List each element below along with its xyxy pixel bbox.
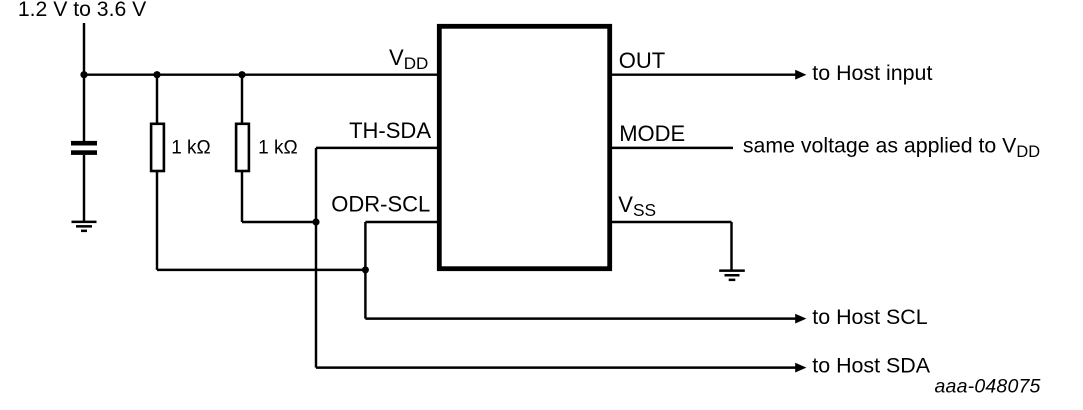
wire VSS pin [610,221,732,223]
junction node: R2 top on VDD bus [238,71,245,78]
svg-text:to Host SCL: to Host SCL [812,305,927,329]
wire R2 top [241,75,243,125]
ground symbol (right, VSS) [719,269,745,281]
arrowhead to Host SCL [795,314,806,324]
svg-text:OUT: OUT [619,48,665,73]
svg-text:1 kΩ: 1 kΩ [171,138,211,159]
wire MODE [610,147,733,149]
wire ODR-SCL pin [365,221,439,223]
wire R1 top [156,75,158,125]
wire VDD bus horizontal to IC pin [84,73,439,75]
resistor R1 [151,124,164,171]
svg-text:MODE: MODE [619,121,685,146]
svg-text:VDD: VDD [389,45,428,73]
IC U1 body [439,26,609,268]
svg-text:same voltage as applied to VDD: same voltage as applied to VDD [743,134,1040,161]
wire ODR-SCL vertical [364,222,366,319]
wire TH-SDA pin [316,147,439,149]
junction node: supply / capacitor / bus [80,71,87,78]
wire SCL to host [365,317,797,319]
wire R1 bottom [156,171,158,270]
wire OUT to host [610,73,797,75]
resistor R2 [236,124,249,171]
wire SDA to host [316,366,797,368]
arrowhead to Host input [795,70,806,80]
svg-text:to Host input: to Host input [812,61,932,85]
wire VSS vertical to ground [730,222,732,270]
wire R1 to ODR-SCL net (horizontal) [157,269,365,271]
junction node on ODR-SCL vertical [362,266,369,273]
wire TH-SDA vertical [315,148,317,368]
wire supply vertical from label to bus [83,23,85,143]
svg-text:1 kΩ: 1 kΩ [258,138,298,159]
wire R2 bottom [241,171,243,222]
wire R2 to TH-SDA net (horizontal) [242,221,316,223]
svg-text:TH-SDA: TH-SDA [349,118,431,143]
svg-text:ODR-SCL: ODR-SCL [331,192,430,217]
junction node: R1 top on VDD bus [153,71,160,78]
svg-text:1.2 V to 3.6 V: 1.2 V to 3.6 V [18,0,147,21]
capacitor C1 plates [71,141,97,155]
junction node on TH-SDA vertical [312,218,319,225]
arrowhead to Host SDA [795,363,806,373]
svg-text:to Host SDA: to Host SDA [812,353,930,377]
ground symbol (left, below capacitor) [72,221,97,233]
wire capacitor bottom to ground [83,155,85,221]
svg-text:VSS: VSS [618,192,656,220]
svg-text:aaa-048075: aaa-048075 [935,376,1041,398]
